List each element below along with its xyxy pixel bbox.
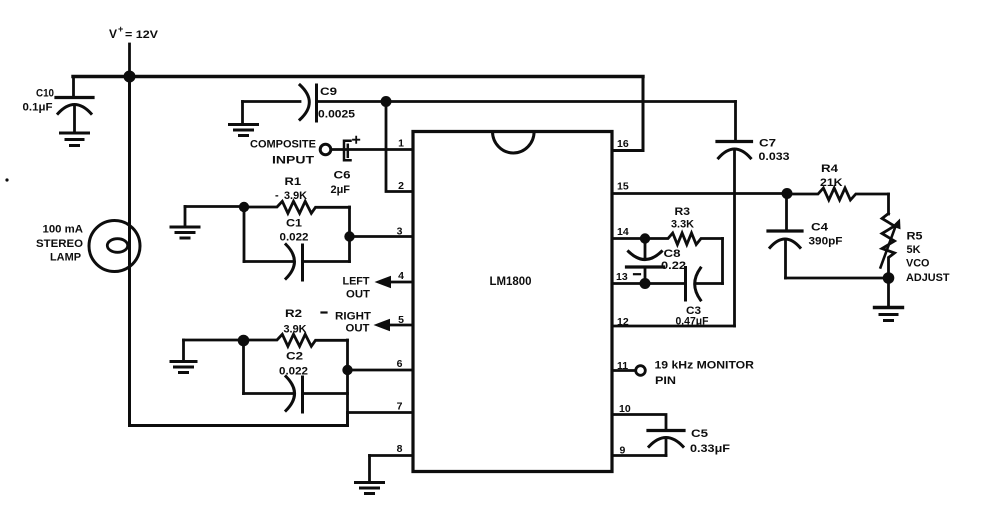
- R4 value label: [820, 163, 843, 189]
- svg-text:3.9K: 3.9K: [284, 324, 307, 336]
- capacitor C7: [717, 102, 752, 327]
- svg-text:C7: C7: [759, 138, 776, 150]
- wire pin 13 row: [612, 282, 686, 285]
- svg-text:3.9K: 3.9K: [284, 190, 307, 202]
- junction pin 15 node: [782, 188, 793, 199]
- wire ground to R1 node: [185, 205, 244, 208]
- C1 value label: [280, 218, 309, 244]
- junction pin 6 node: [342, 365, 352, 375]
- wire pin 10 row: [612, 415, 666, 430]
- svg-text:OUT: OUT: [346, 323, 370, 335]
- terminal pin 11 monitor: [636, 366, 646, 376]
- svg-text:C1: C1: [286, 218, 302, 230]
- svg-text:0.033: 0.033: [759, 151, 790, 163]
- svg-text:+: +: [118, 24, 123, 34]
- svg-text:5: 5: [398, 314, 404, 326]
- wire R3 right vertical: [721, 239, 724, 284]
- lamp label: [36, 224, 83, 264]
- svg-text:2: 2: [398, 180, 404, 192]
- svg-text:390pF: 390pF: [809, 236, 843, 248]
- svg-text:8: 8: [397, 443, 403, 455]
- svg-text:LM1800: LM1800: [490, 274, 532, 288]
- C7 value label: [759, 138, 790, 164]
- wire node to pin1/pin2: [386, 102, 413, 192]
- svg-text:0.33μF: 0.33μF: [690, 443, 730, 455]
- resistor R3: [645, 233, 723, 245]
- wire pin 8 row: [370, 454, 414, 457]
- wire pin 1 row: [331, 148, 413, 151]
- stray tick before RIGHT: [322, 311, 327, 313]
- svg-text:ADJUST: ADJUST: [906, 272, 950, 284]
- wire pin 4 stub: [390, 281, 413, 284]
- wire C2 bottom right lead: [303, 392, 348, 395]
- svg-text:0.22: 0.22: [661, 260, 686, 272]
- node V+ = 12V label: [109, 24, 159, 41]
- wire pin 7 row: [348, 411, 414, 414]
- R1 value label: [275, 176, 307, 202]
- svg-text:4: 4: [398, 270, 404, 282]
- ground (C9 input): [230, 102, 258, 136]
- C4 value label: [809, 222, 843, 248]
- svg-text:R2: R2: [285, 308, 302, 320]
- arrow RIGHT OUT: [374, 319, 391, 331]
- terminal composite input: [320, 144, 331, 155]
- svg-text:0.0025: 0.0025: [318, 109, 355, 121]
- wire pin 14 stub: [612, 237, 645, 240]
- capacitor C6 (electrolytic): [344, 137, 359, 161]
- svg-text:100 mA: 100 mA: [43, 224, 84, 236]
- wire C9 left lead: [243, 100, 301, 103]
- svg-text:13: 13: [616, 271, 628, 283]
- junction pin 14 node: [640, 233, 650, 243]
- wire C9 to C7 rail: [317, 100, 736, 103]
- 19 kHz MONITOR PIN label: [655, 360, 755, 388]
- wire C1 left vertical: [243, 207, 246, 262]
- svg-text:3: 3: [397, 226, 403, 238]
- C6 value label: [331, 170, 351, 197]
- svg-text:0.022: 0.022: [279, 366, 308, 378]
- resistor R2: [244, 334, 348, 346]
- wire C1 right vertical: [348, 207, 351, 262]
- wire ground to R2 node: [184, 339, 244, 342]
- svg-text:COMPOSITE: COMPOSITE: [250, 139, 316, 151]
- svg-text:PIN: PIN: [655, 375, 676, 387]
- capacitor C5: [648, 431, 684, 456]
- wire pin 16 to supply rail: [612, 77, 643, 151]
- svg-text:1: 1: [398, 138, 404, 150]
- wire C2 bottom left lead: [244, 392, 293, 395]
- wire pin 5 stub: [389, 324, 413, 327]
- svg-text:R1: R1: [285, 176, 302, 188]
- svg-text:0.47μF: 0.47μF: [676, 316, 709, 328]
- capacitor C8: [627, 239, 664, 284]
- svg-text:V: V: [109, 27, 117, 41]
- svg-text:VCO: VCO: [906, 258, 930, 270]
- wire C3 to R3 vertical: [697, 282, 723, 285]
- wire R4 to R5: [887, 194, 890, 214]
- wire riser to pin7 node: [346, 413, 349, 426]
- svg-text:R3: R3: [675, 206, 691, 218]
- capacitor C4: [768, 194, 802, 279]
- pin 13 tick mark: [634, 273, 640, 275]
- wire top supply rail: [73, 75, 643, 78]
- svg-text:LEFT: LEFT: [343, 276, 370, 288]
- junction V+ rail: [124, 71, 136, 83]
- svg-text:R4: R4: [821, 163, 839, 175]
- svg-text:0.022: 0.022: [280, 232, 309, 244]
- LEFT OUT label: [343, 276, 371, 301]
- C8 value label: [661, 248, 686, 272]
- junction R2 left node: [238, 335, 250, 347]
- svg-text:C6: C6: [334, 170, 351, 182]
- svg-text:C2: C2: [286, 351, 303, 363]
- svg-text:INPUT: INPUT: [272, 155, 314, 167]
- wire pin 12 row: [612, 325, 735, 328]
- C10 value label: [23, 88, 55, 114]
- RIGHT OUT label: [335, 311, 371, 335]
- junction pin 3 node: [344, 231, 354, 241]
- potentiometer R5: [881, 214, 901, 279]
- svg-text:0.1μF: 0.1μF: [23, 102, 53, 114]
- svg-text:R5: R5: [907, 231, 923, 243]
- junction R1 left node: [239, 202, 249, 212]
- junction R5 bottom node: [883, 272, 895, 284]
- C3 value label: [676, 305, 709, 328]
- R3 value label: [671, 206, 694, 231]
- svg-text:2μF: 2μF: [331, 184, 351, 196]
- svg-text:C5: C5: [691, 428, 708, 440]
- svg-text:3.3K: 3.3K: [671, 219, 694, 231]
- wire bottom return: [130, 424, 348, 427]
- capacitor C1: [286, 245, 303, 281]
- R2 value label: [284, 308, 307, 336]
- svg-text:C9: C9: [320, 86, 337, 98]
- svg-text:6: 6: [397, 358, 403, 370]
- wire pin 3 row: [350, 235, 414, 238]
- capacitor C2: [286, 377, 303, 413]
- svg-text:19 kHz MONITOR: 19 kHz MONITOR: [655, 360, 755, 372]
- svg-text:-: -: [275, 190, 279, 202]
- arrow LEFT OUT: [375, 276, 392, 288]
- svg-text:5K: 5K: [907, 244, 921, 256]
- svg-text:= 12V: = 12V: [125, 29, 159, 41]
- ground (R2): [171, 340, 196, 373]
- C2 value label: [279, 351, 308, 378]
- wire C1 bottom left lead: [244, 260, 292, 263]
- svg-text:LAMP: LAMP: [50, 252, 81, 264]
- R5 value label: [906, 231, 950, 285]
- capacitor C10: [56, 77, 93, 132]
- svg-text:STEREO: STEREO: [36, 238, 83, 250]
- svg-text:RIGHT: RIGHT: [335, 311, 371, 323]
- COMPOSITE INPUT label: [250, 139, 316, 167]
- svg-text:16: 16: [617, 138, 629, 150]
- capacitor C9: [300, 85, 317, 121]
- capacitor C3: [686, 268, 701, 301]
- wire C1 bottom right lead: [303, 260, 350, 263]
- svg-text:C4: C4: [811, 222, 829, 234]
- svg-text:C10: C10: [36, 88, 54, 100]
- ground (C10): [61, 133, 89, 146]
- lamp 100 mA stereo lamp: [89, 221, 140, 272]
- svg-text:14: 14: [617, 226, 629, 238]
- svg-text:7: 7: [397, 401, 403, 413]
- wire pin 11 stub: [612, 369, 636, 372]
- C9 value label: [318, 86, 355, 121]
- wire pin 9 row: [612, 454, 666, 457]
- wire R2C2 right vertical: [346, 340, 349, 426]
- ground (R1): [171, 207, 199, 239]
- wire C2 left vertical: [242, 340, 245, 394]
- wire V+ stub: [128, 44, 131, 77]
- wire lamp branch vertical: [128, 77, 131, 426]
- svg-text:C8: C8: [664, 248, 681, 260]
- resistor R4: [787, 188, 889, 200]
- wire pin 6 row: [348, 369, 414, 372]
- junction C9 node: [381, 96, 392, 107]
- svg-text:15: 15: [617, 181, 629, 193]
- resistor R1: [244, 201, 350, 213]
- svg-text:21K: 21K: [820, 177, 843, 189]
- op-amp U1 IC LM1800 outline: [413, 132, 612, 472]
- stray mark dot: [5, 178, 8, 181]
- C5 value label: [690, 428, 730, 455]
- ground (R5): [875, 278, 903, 321]
- ground (pin 8): [356, 456, 384, 494]
- svg-text:OUT: OUT: [346, 289, 370, 301]
- junction pin 13 node: [640, 278, 651, 289]
- wire pin 15 row: [612, 192, 787, 195]
- wire C4 bottom to R5 bottom: [786, 277, 889, 280]
